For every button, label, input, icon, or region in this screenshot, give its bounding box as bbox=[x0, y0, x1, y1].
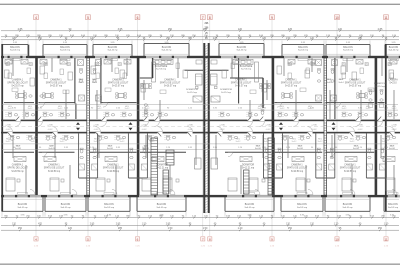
svg-text:SPATIU DE LOCUIT: SPATIU DE LOCUIT bbox=[231, 82, 252, 85]
svg-text:CAMERA 1: CAMERA 1 bbox=[285, 78, 297, 81]
svg-text:+2.85: +2.85 bbox=[311, 124, 317, 126]
svg-text:S=3.2: S=3.2 bbox=[366, 108, 371, 110]
radiators under top windows bbox=[10, 59, 399, 61]
svg-text:S=4.41: S=4.41 bbox=[255, 148, 261, 150]
room label upper bbox=[46, 78, 67, 87]
small room label bbox=[339, 78, 344, 84]
room label lower bbox=[44, 164, 65, 173]
svg-text:S=3.2: S=3.2 bbox=[145, 108, 150, 110]
svg-text:+2.85: +2.85 bbox=[187, 124, 193, 126]
svg-text:S=3.2: S=3.2 bbox=[58, 108, 63, 110]
small room label bbox=[92, 78, 97, 84]
svg-text:S=23.07 mp: S=23.07 mp bbox=[349, 86, 362, 88]
svg-text:S=4.41: S=4.41 bbox=[107, 148, 113, 150]
svg-text:10: 10 bbox=[335, 16, 339, 20]
partition wall bbox=[100, 58, 102, 104]
svg-text:S=4.45 mp: S=4.45 mp bbox=[343, 50, 354, 52]
duct wall x263 bbox=[262, 78, 263, 108]
svg-text:SPATIU DE LOCUIT: SPATIU DE LOCUIT bbox=[7, 82, 28, 85]
svg-text:S=4.45 mp: S=4.45 mp bbox=[60, 50, 71, 52]
bottom dim row3 numbers bbox=[18, 227, 383, 231]
svg-text:S=4.45 mp: S=4.45 mp bbox=[388, 50, 399, 52]
svg-text:9: 9 bbox=[271, 16, 273, 20]
svg-text:S=4.41: S=4.41 bbox=[48, 148, 54, 150]
balcony bottom 2 bbox=[45, 197, 86, 212]
svg-text:BAIE: BAIE bbox=[108, 144, 113, 147]
hall labels upper bbox=[8, 106, 397, 110]
partition wall bbox=[326, 102, 375, 104]
bath label lower bbox=[48, 144, 54, 150]
balcony top 8 bbox=[385, 45, 400, 57]
bedroom label bbox=[374, 83, 386, 88]
partition wall bbox=[74, 58, 76, 104]
svg-text:S=4.45 mp: S=4.45 mp bbox=[107, 50, 118, 52]
svg-text:S=7.35 mp: S=7.35 mp bbox=[156, 69, 167, 71]
grid bubble 5 top bbox=[86, 15, 91, 20]
door jambs top wall bbox=[8, 56, 400, 58]
grid bubble 10 top bbox=[335, 15, 340, 20]
svg-text:S=4.41 mp: S=4.41 mp bbox=[17, 207, 28, 209]
grid bubble 9 bottom bbox=[270, 237, 275, 248]
svg-text:BAIE: BAIE bbox=[327, 78, 332, 81]
radiators above bottom windows bbox=[18, 192, 399, 194]
svg-text:CAMERA 1: CAMERA 1 bbox=[112, 78, 124, 81]
svg-text:DORMITOR: DORMITOR bbox=[242, 165, 255, 167]
room label upper bbox=[231, 78, 252, 87]
svg-text:S=20.59 mp: S=20.59 mp bbox=[11, 171, 24, 173]
svg-text:BALCON: BALCON bbox=[298, 46, 308, 49]
room label upper bbox=[160, 78, 181, 87]
top dim row3 numbers bbox=[12, 38, 388, 41]
svg-text:S=3.2: S=3.2 bbox=[308, 108, 313, 110]
grid line 10 bbox=[336, 20, 338, 236]
corridor wall lower bbox=[1, 132, 400, 134]
room label upper bbox=[388, 78, 398, 84]
svg-text:CAMERA 1: CAMERA 1 bbox=[344, 164, 356, 167]
svg-text:S=3.2: S=3.2 bbox=[97, 108, 102, 110]
balcony top 2 bbox=[43, 45, 87, 57]
kitchen label bbox=[240, 65, 253, 71]
bath floor hatch upper bbox=[5, 112, 394, 116]
grid line 6 bbox=[137, 20, 139, 236]
partition wall bbox=[210, 69, 229, 71]
svg-text:BALCON: BALCON bbox=[60, 46, 70, 49]
svg-text:S=4.41: S=4.41 bbox=[297, 148, 303, 150]
svg-text:S=7.35 mp: S=7.35 mp bbox=[241, 69, 252, 71]
svg-text:BALCON: BALCON bbox=[108, 46, 118, 49]
party wall left edge bbox=[1, 44, 3, 212]
balcony top 1 bbox=[2, 45, 28, 57]
svg-text:S=3.2: S=3.2 bbox=[350, 141, 355, 143]
svg-text:S=4.41 mp: S=4.41 mp bbox=[60, 207, 71, 209]
balcony top 7 bbox=[326, 45, 370, 57]
svg-text:SPATIU DE LOCUIT: SPATIU DE LOCUIT bbox=[340, 167, 361, 170]
svg-text:S=4.41: S=4.41 bbox=[389, 148, 395, 150]
svg-text:BALCON: BALCON bbox=[104, 203, 114, 206]
balcony bottom 6 bbox=[281, 197, 323, 212]
exterior wall bottom with windows bbox=[1, 195, 400, 197]
svg-text:-0.02: -0.02 bbox=[6, 129, 12, 131]
svg-text:11: 11 bbox=[384, 238, 387, 242]
partition wall bbox=[238, 58, 240, 104]
bottom dim row1 numbers bbox=[4, 216, 396, 219]
striped wardrobe left bbox=[163, 150, 174, 194]
room label lower bbox=[103, 164, 124, 173]
svg-text:BAIE: BAIE bbox=[49, 144, 54, 147]
svg-text:-0.02: -0.02 bbox=[94, 129, 100, 131]
grid bubble 10 bottom bbox=[335, 237, 340, 248]
svg-text:S=4.45 mp: S=4.45 mp bbox=[236, 50, 247, 52]
svg-text:CAMERA 1: CAMERA 1 bbox=[164, 78, 176, 81]
bath label lower bbox=[353, 144, 359, 150]
expansion joint wall right bbox=[208, 43, 210, 213]
svg-text:4: 4 bbox=[35, 16, 37, 20]
balcony bottom 1 bbox=[2, 197, 43, 212]
balcony top 3 bbox=[93, 45, 132, 57]
svg-text:8: 8 bbox=[209, 16, 211, 20]
svg-text:S=12.4 mp: S=12.4 mp bbox=[187, 92, 198, 94]
bath label lower bbox=[255, 144, 261, 150]
svg-text:CAMERA 1: CAMERA 1 bbox=[48, 164, 60, 167]
svg-text:BAIE: BAIE bbox=[256, 144, 261, 147]
partition wall bbox=[39, 151, 75, 153]
bedroom label bbox=[186, 89, 198, 94]
misc furniture upper bbox=[5, 63, 394, 94]
svg-text:CAMERA 1: CAMERA 1 bbox=[235, 78, 247, 81]
svg-text:S=3.2: S=3.2 bbox=[120, 141, 125, 143]
svg-text:S=23.07 mp: S=23.07 mp bbox=[11, 86, 24, 88]
svg-text:11: 11 bbox=[384, 16, 388, 20]
partition wall bbox=[28, 45, 30, 58]
furniture lower row bbox=[6, 135, 397, 194]
small room label bbox=[327, 78, 332, 84]
svg-text:S=3.2: S=3.2 bbox=[125, 108, 130, 110]
partition wall bbox=[230, 77, 263, 79]
grid line 9 bbox=[271, 20, 273, 236]
svg-text:S=4.4: S=4.4 bbox=[339, 82, 344, 84]
sub-partitions lower bbox=[13, 135, 394, 194]
partition wall bbox=[275, 102, 323, 104]
partition wall bbox=[4, 102, 34, 104]
grid bubble 11 top bbox=[384, 15, 389, 20]
corridor centre line bbox=[2, 125, 398, 127]
grid bubble 5 bottom bbox=[86, 237, 91, 248]
door jambs bottom wall bbox=[15, 195, 397, 197]
party wall x323 hatched bbox=[324, 58, 327, 195]
room label lower bbox=[242, 165, 255, 170]
kitchen label bbox=[155, 65, 168, 71]
svg-text:S=3.2: S=3.2 bbox=[60, 141, 65, 143]
svg-text:S=3.2: S=3.2 bbox=[8, 108, 13, 110]
svg-text:BALCON: BALCON bbox=[10, 46, 20, 49]
svg-text:S=4.45 mp: S=4.45 mp bbox=[10, 50, 21, 52]
svg-text:S=20.59 mp: S=20.59 mp bbox=[48, 171, 61, 173]
svg-text:S=4.45 mp: S=4.45 mp bbox=[161, 50, 172, 52]
grid bubble 11 bottom bbox=[384, 237, 389, 248]
svg-text:BUCATARIE: BUCATARIE bbox=[240, 65, 253, 68]
svg-text:DORMITOR: DORMITOR bbox=[186, 89, 198, 91]
svg-text:S=4.41 mp: S=4.41 mp bbox=[297, 207, 308, 209]
svg-text:S=4.45 mp: S=4.45 mp bbox=[298, 50, 309, 52]
svg-text:S=4.41 mp: S=4.41 mp bbox=[244, 207, 255, 209]
partition wall bbox=[140, 77, 153, 79]
small room label bbox=[79, 78, 84, 84]
svg-text:S=12.4 mp: S=12.4 mp bbox=[375, 86, 386, 88]
partition wall bbox=[90, 151, 137, 153]
svg-text:S=23.07 mp: S=23.07 mp bbox=[285, 86, 298, 88]
svg-text:BALCON: BALCON bbox=[343, 46, 353, 49]
room label upper bbox=[108, 78, 129, 87]
bath clusters lower at party walls bbox=[79, 133, 386, 178]
partition wall bbox=[275, 151, 323, 153]
svg-text:CAMERA 1: CAMERA 1 bbox=[50, 78, 62, 81]
beds at center joint bbox=[196, 74, 218, 89]
grid line 4 bbox=[35, 20, 37, 236]
grid bubble 4 top bbox=[34, 15, 39, 20]
balcony top 6 bbox=[282, 45, 324, 57]
door swing arcs bbox=[7, 103, 394, 157]
expansion joint hatch bbox=[205, 45, 207, 213]
svg-text:CAMERA 1: CAMERA 1 bbox=[12, 164, 24, 167]
center dim text bbox=[204, 23, 209, 40]
grid bubble 4 bottom bbox=[34, 237, 39, 248]
svg-text:7: 7 bbox=[202, 16, 204, 20]
party wall x272 bbox=[272, 58, 275, 195]
party wall x36 bbox=[35, 58, 38, 195]
partition wall bbox=[75, 104, 77, 120]
svg-text:S=3.2: S=3.2 bbox=[280, 108, 285, 110]
svg-text:BALCON: BALCON bbox=[157, 203, 167, 206]
corridor level marks and arrows bbox=[5, 122, 397, 131]
svg-text:S=20.59 mp: S=20.59 mp bbox=[291, 171, 304, 173]
partition wall bbox=[102, 102, 137, 104]
interior dimension strings bbox=[2, 104, 398, 149]
furniture upper row bbox=[5, 59, 398, 117]
bath label lower bbox=[143, 144, 149, 150]
svg-text:SPATIU DE LOCUIT: SPATIU DE LOCUIT bbox=[281, 82, 302, 85]
svg-text:S=3.2: S=3.2 bbox=[258, 108, 263, 110]
svg-text:SPATIU DE LOCUIT: SPATIU DE LOCUIT bbox=[103, 167, 124, 170]
svg-text:S=3.2: S=3.2 bbox=[292, 141, 297, 143]
svg-text:+2.85: +2.85 bbox=[391, 124, 397, 126]
bath label lower bbox=[107, 144, 113, 150]
svg-text:SPATIU DE LOCUIT: SPATIU DE LOCUIT bbox=[7, 167, 28, 170]
svg-text:BAIE: BAIE bbox=[298, 144, 303, 147]
room label lower bbox=[156, 165, 169, 170]
svg-text:SPATIU DE LOCUIT: SPATIU DE LOCUIT bbox=[108, 82, 129, 85]
grid line 7 bbox=[202, 20, 204, 236]
svg-text:-0.02: -0.02 bbox=[142, 129, 148, 131]
balcony bottom 3 bbox=[88, 197, 130, 212]
bedroom label bbox=[220, 89, 232, 94]
stair shaft left bbox=[151, 138, 158, 195]
svg-text:+2.85: +2.85 bbox=[265, 124, 271, 126]
bath floor hatch lower bbox=[8, 135, 392, 139]
svg-text:SPATIU DE LOCUIT: SPATIU DE LOCUIT bbox=[44, 167, 65, 170]
bath label lower bbox=[389, 144, 395, 150]
balcony bottom 4 bbox=[137, 197, 186, 212]
top dim row2 numbers bbox=[5, 35, 397, 38]
dimension chain lines bbox=[1, 31, 399, 230]
svg-text:S=4.41 mp: S=4.41 mp bbox=[342, 207, 353, 209]
svg-text:BALCON: BALCON bbox=[343, 203, 353, 206]
grid bubble 8 bottom bbox=[208, 237, 213, 248]
svg-text:BALCON: BALCON bbox=[245, 203, 255, 206]
svg-text:S=23.07 mp: S=23.07 mp bbox=[112, 86, 125, 88]
svg-text:BAIE: BAIE bbox=[354, 144, 359, 147]
svg-text:5: 5 bbox=[87, 16, 89, 20]
svg-text:BALCON: BALCON bbox=[61, 203, 71, 206]
svg-text:CAMERA 1: CAMERA 1 bbox=[12, 78, 24, 81]
svg-text:BALCON: BALCON bbox=[237, 46, 247, 49]
svg-text:S=26.37 mp: S=26.37 mp bbox=[164, 86, 177, 88]
svg-text:DORMITOR: DORMITOR bbox=[374, 83, 386, 85]
sheet top border line bbox=[0, 3, 400, 5]
svg-text:S=3.2: S=3.2 bbox=[28, 108, 33, 110]
svg-text:BALCON: BALCON bbox=[162, 46, 172, 49]
svg-text:S=4.41: S=4.41 bbox=[15, 148, 21, 150]
svg-text:CAMERA: CAMERA bbox=[388, 78, 398, 81]
svg-text:BALCON: BALCON bbox=[18, 203, 28, 206]
duct wall x152 bbox=[152, 58, 153, 78]
svg-text:+2.85: +2.85 bbox=[47, 124, 53, 126]
svg-text:S=20.59 mp: S=20.59 mp bbox=[344, 171, 357, 173]
svg-text:-0.02: -0.02 bbox=[266, 129, 272, 131]
partition wall bbox=[185, 69, 204, 71]
svg-text:S=3.2: S=3.2 bbox=[236, 141, 241, 143]
witness lines bbox=[2, 41, 400, 217]
room label upper bbox=[345, 78, 366, 87]
grid bubble 7 bottom bbox=[201, 237, 206, 248]
party wall x386 bbox=[385, 44, 387, 212]
svg-text:S=26.37 mp: S=26.37 mp bbox=[235, 86, 248, 88]
partition wall bbox=[140, 151, 186, 153]
svg-text:-0.02: -0.02 bbox=[48, 129, 54, 131]
grid line 8 bbox=[209, 20, 211, 236]
partition wall bbox=[378, 102, 385, 104]
svg-text:S=4.41 mp: S=4.41 mp bbox=[156, 207, 167, 209]
bottom dim row2 numbers bbox=[12, 223, 389, 226]
svg-text:BAIE: BAIE bbox=[390, 144, 395, 147]
room label upper bbox=[281, 78, 302, 87]
grid line 5 bbox=[87, 20, 89, 236]
room label lower bbox=[7, 164, 28, 173]
grid bubble 8 top bbox=[207, 15, 212, 20]
svg-text:S=23.07 mp: S=23.07 mp bbox=[50, 86, 63, 88]
balcony bottom 8 bbox=[384, 197, 400, 212]
svg-text:S=4.41 mp: S=4.41 mp bbox=[104, 207, 115, 209]
sub-partitions upper bbox=[13, 58, 394, 119]
grid line 11 bbox=[385, 20, 387, 236]
balcony bottom 7 bbox=[325, 197, 370, 212]
partition wall bbox=[334, 58, 336, 119]
svg-text:SPATIU DE LOCUIT: SPATIU DE LOCUIT bbox=[287, 167, 308, 170]
balcony top 5 bbox=[219, 44, 264, 57]
sheet bottom border line bbox=[0, 263, 400, 265]
svg-text:S=4.41: S=4.41 bbox=[353, 148, 359, 150]
svg-text:S=12.4 mp: S=12.4 mp bbox=[221, 92, 232, 94]
svg-text:+2.85: +2.85 bbox=[93, 124, 99, 126]
svg-text:S=20.59 mp: S=20.59 mp bbox=[107, 171, 120, 173]
svg-text:BALCON: BALCON bbox=[297, 203, 307, 206]
svg-text:BALCON: BALCON bbox=[388, 203, 398, 206]
svg-text:CAMERA 1: CAMERA 1 bbox=[291, 164, 303, 167]
svg-text:S=23.0: S=23.0 bbox=[389, 83, 397, 85]
room label upper bbox=[7, 78, 28, 87]
svg-text:S=3.2: S=3.2 bbox=[6, 141, 11, 143]
svg-text:+2.85: +2.85 bbox=[5, 124, 11, 126]
bath label lower bbox=[297, 144, 303, 150]
top dim row1 numbers bbox=[18, 28, 383, 32]
svg-text:-0.02: -0.02 bbox=[358, 129, 364, 131]
partition wall bbox=[39, 102, 75, 104]
partition wall bbox=[4, 151, 34, 153]
svg-text:DORMITOR: DORMITOR bbox=[220, 89, 232, 91]
svg-text:10: 10 bbox=[335, 238, 339, 242]
svg-text:S=3.2: S=3.2 bbox=[318, 141, 323, 143]
svg-text:6: 6 bbox=[137, 16, 139, 20]
kitchenette marks bbox=[6, 63, 391, 66]
svg-text:S=3.2: S=3.2 bbox=[150, 141, 155, 143]
corridor wall upper bbox=[1, 120, 400, 122]
svg-text:S=3.2: S=3.2 bbox=[31, 141, 36, 143]
partition wall bbox=[225, 151, 271, 153]
svg-text:S=4.4: S=4.4 bbox=[327, 82, 332, 84]
expansion joint wall left bbox=[203, 43, 205, 213]
exterior wall top with windows bbox=[1, 56, 400, 58]
svg-text:CAMERA 1: CAMERA 1 bbox=[107, 164, 119, 167]
svg-text:S=3.2: S=3.2 bbox=[392, 108, 397, 110]
balcony top 4 bbox=[144, 44, 189, 57]
party wall x137 bbox=[137, 58, 140, 195]
grid bubble 6 top bbox=[135, 15, 140, 20]
svg-text:BAIE: BAIE bbox=[16, 144, 21, 147]
svg-text:S=12.21 mp: S=12.21 mp bbox=[242, 168, 255, 170]
room label lower bbox=[340, 164, 361, 173]
hall labels lower bbox=[6, 138, 387, 142]
grid bubble 9 top bbox=[270, 15, 275, 20]
svg-text:S=4.41 mp: S=4.41 mp bbox=[388, 207, 399, 209]
svg-text:S=3.2: S=3.2 bbox=[342, 108, 347, 110]
svg-text:+2.85: +2.85 bbox=[219, 124, 225, 126]
svg-text:BUCATARIE: BUCATARIE bbox=[155, 65, 168, 68]
svg-text:SPATIU DE LOCUIT: SPATIU DE LOCUIT bbox=[345, 82, 366, 85]
svg-text:SPATIU DE LOCUIT: SPATIU DE LOCUIT bbox=[46, 82, 67, 85]
svg-text:SPATIU DE LOCUIT: SPATIU DE LOCUIT bbox=[160, 82, 181, 85]
room label lower bbox=[287, 164, 308, 173]
grid bubble 7 top bbox=[200, 15, 205, 20]
partition wall bbox=[326, 151, 375, 153]
striped wardrobe right bbox=[244, 170, 250, 194]
wardrobes at center joint bbox=[193, 60, 220, 169]
svg-text:BALCON: BALCON bbox=[389, 46, 399, 49]
party wall x88 hatched bbox=[87, 58, 90, 195]
grid bubble 6 bottom bbox=[135, 237, 140, 248]
balcony bottom 5 bbox=[225, 197, 274, 212]
party wall x375 bbox=[375, 58, 378, 195]
stair shaft right bbox=[268, 138, 275, 195]
bath label lower bbox=[15, 144, 21, 150]
